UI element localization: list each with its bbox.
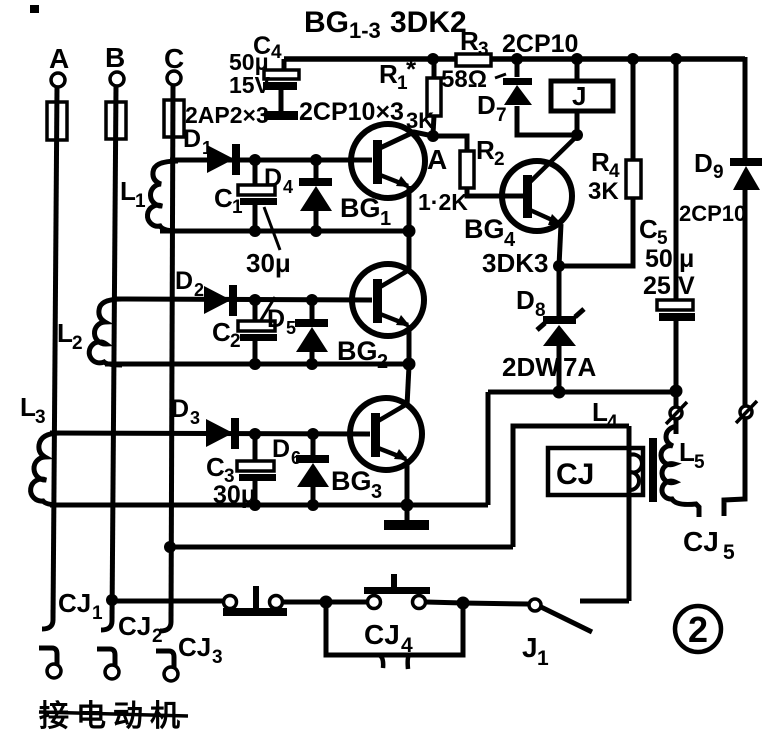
contactor coil CJ wire through (627, 426, 632, 601)
svg-text:3: 3 (478, 39, 489, 60)
pointer line 30u to C2 (258, 297, 275, 325)
svg-text:C: C (639, 214, 658, 244)
row3 bottom wire (50, 503, 488, 508)
row3 junctions (249, 428, 414, 512)
svg-text:2: 2 (230, 331, 241, 352)
diode D1 (207, 144, 240, 175)
svg-text:CJ: CJ (364, 619, 400, 650)
smudge line (39, 712, 188, 716)
phase wire A (53, 87, 57, 620)
svg-text:L: L (20, 392, 36, 422)
label CJ2 (118, 611, 163, 647)
capacitor C1 (238, 160, 277, 231)
row1 top wire (170, 158, 372, 163)
svg-text:L: L (120, 176, 136, 206)
junction C5/L5 (670, 385, 683, 398)
rail junction dots (427, 53, 682, 65)
svg-text:μ: μ (679, 245, 694, 273)
junction B (106, 594, 118, 606)
transistor BG2 (352, 233, 424, 366)
svg-text:L: L (57, 318, 73, 348)
row2: coil L2 (89, 299, 122, 365)
row1 junctions (249, 154, 416, 238)
diode D7 (495, 59, 573, 135)
zener diode D8 (537, 266, 584, 392)
svg-text:D: D (516, 285, 535, 315)
wire stop to junction (283, 600, 369, 605)
svg-text:30μ: 30μ (246, 248, 291, 278)
svg-text:50: 50 (645, 245, 673, 273)
resistor R2 (460, 151, 474, 188)
svg-text:BG: BG (464, 214, 505, 244)
fuse B (106, 102, 126, 139)
label L1 (120, 176, 146, 212)
wire D9 line down to CJ5 (724, 418, 745, 516)
resistor R3 (456, 54, 491, 66)
fuse A (47, 102, 67, 140)
svg-text:BG: BG (304, 6, 349, 39)
svg-text:5: 5 (694, 452, 705, 473)
svg-text:4: 4 (283, 177, 293, 197)
label R1* (379, 54, 417, 94)
label CJ3 (178, 632, 223, 668)
figure number 2 (675, 606, 721, 652)
junction C/CJ wire (164, 541, 176, 553)
svg-text:BG: BG (340, 193, 381, 223)
row2 junctions (249, 294, 416, 371)
label D3 (171, 395, 200, 428)
label D6 (272, 435, 301, 468)
right rail vertical (743, 57, 748, 160)
label C4 (253, 32, 282, 63)
svg-text:2: 2 (494, 149, 505, 170)
svg-text:R: R (379, 59, 398, 89)
svg-text:C: C (214, 183, 233, 213)
resistor R4 (561, 59, 641, 266)
wire D8 bottom rail (488, 390, 676, 395)
diode D4 (299, 160, 332, 231)
wire C line to CJ coil (170, 545, 513, 550)
label CJ5 (683, 526, 735, 564)
row2 top wire (114, 299, 372, 300)
label D4 (264, 164, 293, 197)
svg-text:1: 1 (380, 208, 391, 230)
svg-text:*: * (406, 54, 417, 84)
svg-text:1: 1 (135, 191, 146, 212)
svg-text:1·2K: 1·2K (418, 189, 468, 215)
contactor CJ2 contact (97, 610, 119, 679)
label BG1 (340, 193, 391, 230)
wire CJ4 to junction right (426, 602, 463, 603)
junction BG4 emitter / R4 (553, 260, 565, 272)
stop button (NC) (223, 586, 287, 616)
transistor BG3 (350, 366, 422, 506)
svg-text:2CP10: 2CP10 (502, 30, 578, 58)
row1 bottom wire (160, 229, 409, 234)
svg-text:D: D (477, 90, 496, 120)
switch J1 (529, 599, 629, 632)
label J1 (522, 632, 549, 670)
svg-text:D: D (267, 305, 285, 333)
label C3 (206, 452, 235, 487)
label L4 (592, 397, 618, 433)
svg-text:D: D (264, 164, 282, 192)
svg-text:J: J (522, 632, 538, 663)
svg-text:R: R (591, 147, 610, 177)
svg-text:A: A (427, 144, 447, 175)
wire down from D8 rail to emitter rail (486, 392, 491, 505)
label L3 (20, 392, 46, 428)
label D8 (516, 285, 546, 321)
svg-text:V: V (678, 272, 695, 300)
label BG2 (337, 336, 388, 373)
top supply rail (284, 56, 745, 62)
label R2 (476, 135, 505, 170)
scan speck (30, 5, 39, 13)
junction bypass right (457, 597, 470, 610)
wire up to L4 (513, 426, 629, 547)
label 50u 25V (C5) (643, 245, 695, 300)
svg-text:1: 1 (202, 138, 212, 158)
svg-text:3: 3 (35, 407, 46, 428)
svg-text:8: 8 (535, 300, 546, 321)
junction D8 bottom (553, 386, 566, 399)
diode D3 (206, 418, 239, 449)
svg-text:1: 1 (232, 197, 243, 218)
svg-text:3: 3 (371, 481, 382, 503)
svg-text:C: C (212, 317, 231, 347)
fuse C (164, 100, 184, 137)
svg-text:D: D (272, 435, 290, 463)
svg-text:B: B (105, 42, 125, 73)
label 2DW7A (502, 352, 596, 382)
wire junction to J1 (463, 603, 528, 604)
svg-text:CJ: CJ (683, 526, 719, 557)
contactor coil CJ box (548, 448, 643, 495)
phase wire C (171, 85, 173, 622)
label CJ4 (364, 619, 413, 657)
svg-text:L: L (592, 397, 608, 427)
terminal B circle (110, 72, 124, 86)
wire node A to R2 (433, 136, 467, 152)
svg-text:2DW: 2DW (502, 352, 560, 382)
svg-text:3: 3 (212, 647, 223, 668)
label BG4 (464, 214, 516, 251)
svg-text:6: 6 (291, 448, 301, 468)
svg-text:1-3: 1-3 (349, 18, 381, 43)
svg-text:2: 2 (72, 333, 83, 354)
svg-text:A: A (49, 43, 69, 74)
label D9 (694, 148, 724, 183)
diode D5 (295, 300, 328, 364)
label D1 (183, 125, 212, 158)
svg-text:58Ω: 58Ω (441, 66, 487, 93)
phase wire B (112, 86, 116, 621)
start button CJ4 contacts (NO) (364, 574, 430, 609)
svg-text:3DK2: 3DK2 (390, 6, 467, 39)
label L2 (57, 318, 83, 354)
terminal A circle (51, 73, 65, 87)
label CJ1 (58, 588, 103, 624)
svg-text:7: 7 (496, 105, 507, 126)
label C1 (214, 183, 243, 218)
terminal C circle (167, 71, 181, 85)
svg-text:CJ: CJ (58, 588, 91, 618)
contactor CJ1 contact (39, 610, 61, 678)
svg-text:D: D (175, 267, 193, 295)
svg-text:CJ: CJ (556, 458, 594, 491)
svg-text:25: 25 (643, 272, 671, 300)
svg-text:D: D (171, 395, 189, 423)
svg-text:1: 1 (537, 647, 549, 670)
svg-text:5: 5 (723, 541, 735, 564)
svg-text:15V: 15V (229, 72, 271, 98)
svg-text:D: D (183, 125, 201, 153)
node A junction (427, 130, 439, 142)
wire B to stop button (112, 599, 225, 604)
transistor BG1 (351, 124, 433, 233)
bypass wire with CJ4 aux contact (326, 602, 463, 669)
svg-text:9: 9 (713, 162, 724, 183)
svg-text:2CP10: 2CP10 (679, 201, 746, 226)
capacitor C2 (238, 300, 277, 364)
relay coil J (551, 59, 613, 135)
label R3 (460, 26, 489, 60)
svg-text:3: 3 (190, 408, 200, 428)
label D7 (477, 90, 507, 126)
svg-text:J: J (572, 81, 586, 111)
svg-text:1: 1 (92, 603, 103, 624)
svg-text:4: 4 (607, 412, 618, 433)
svg-text:2: 2 (688, 609, 708, 650)
svg-text:L: L (679, 437, 695, 467)
svg-text:C: C (206, 452, 225, 482)
ground (384, 505, 429, 530)
svg-text:R: R (460, 26, 479, 56)
contact slash on L5 line (666, 391, 687, 424)
resistor R1 (427, 59, 441, 134)
svg-text:3DK3: 3DK3 (482, 248, 548, 278)
svg-text:CJ: CJ (118, 611, 151, 641)
label C5 (639, 214, 668, 249)
wire R2 to BG4 base (467, 188, 523, 196)
contact slash on D9 line (736, 401, 757, 423)
label D2 (175, 267, 204, 300)
label R4 (591, 147, 620, 182)
capacitor C5 (657, 59, 695, 391)
svg-text:D: D (694, 148, 713, 178)
core bar (649, 438, 657, 502)
coil L5 (661, 419, 699, 517)
contactor CJ3 contact (156, 612, 178, 681)
label L5 (679, 437, 705, 473)
label D5 (267, 305, 296, 338)
svg-text:BG: BG (331, 466, 372, 496)
row2 bottom wire (105, 362, 409, 367)
capacitor C4 (263, 59, 299, 120)
svg-text:4: 4 (401, 634, 413, 657)
transistor BG4 (502, 136, 577, 266)
svg-text:R: R (476, 135, 495, 165)
capacitor C3 (237, 434, 276, 505)
svg-text:2: 2 (194, 280, 204, 300)
svg-text:4: 4 (271, 42, 282, 63)
svg-text:5: 5 (286, 318, 296, 338)
row3 top wire (50, 433, 370, 434)
diode D6 (296, 434, 329, 505)
junction J/D7/BG4 collector (571, 129, 583, 141)
pointer line 30u to C1 (264, 207, 280, 250)
diode D9 (730, 158, 762, 405)
svg-text:7A: 7A (563, 352, 596, 382)
label C2 (212, 317, 241, 352)
row3: coil L3 (31, 433, 60, 505)
label BG3 (331, 466, 382, 503)
title BG1-3 3DK2 (304, 6, 467, 43)
row1: coil L1 (147, 161, 178, 231)
svg-text:CJ: CJ (178, 632, 211, 662)
junction bypass left (320, 596, 333, 609)
svg-text:3K: 3K (588, 178, 619, 205)
coil squiggle (630, 455, 642, 491)
diode D2 (204, 285, 237, 316)
label 50u 15V (229, 49, 271, 98)
